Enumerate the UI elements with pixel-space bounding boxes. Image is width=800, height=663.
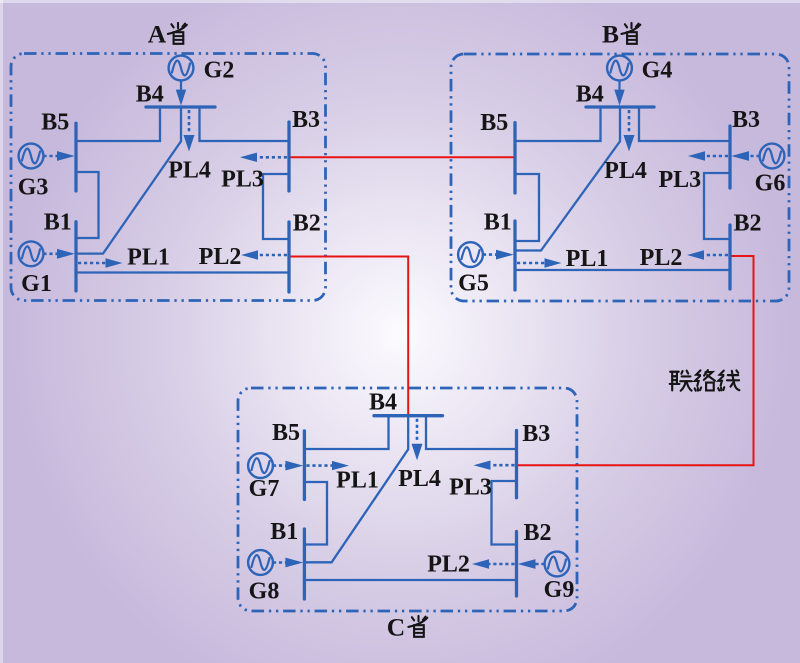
svg-text:B3: B3 [732, 107, 760, 133]
svg-text:G3: G3 [18, 175, 49, 201]
svg-text:B3: B3 [522, 421, 550, 447]
wire A.B1 to A.B2 [76, 271, 289, 273]
label C省 [387, 613, 428, 642]
svg-text:B5: B5 [480, 110, 508, 136]
load PL3 arrow (A.B3) [240, 153, 287, 162]
svg-text:B4: B4 [136, 82, 164, 108]
svg-text:PL4: PL4 [604, 158, 647, 184]
wire B.B4 to B.B3 [639, 107, 730, 141]
label B省 [602, 19, 640, 48]
svg-text:G5: G5 [458, 271, 489, 297]
svg-text:B5: B5 [272, 420, 300, 446]
svg-text:A: A [148, 19, 167, 48]
wire A.B5 to A.B1 [76, 172, 99, 238]
bus B.B3 [728, 126, 731, 188]
wire C.B5 to C.B1 [304, 482, 327, 545]
province C boundary box [238, 388, 577, 611]
bus A.B3 [287, 122, 290, 191]
wire C.B4 to C.B5 [304, 416, 388, 449]
svg-text:B1: B1 [44, 210, 72, 236]
load PL2 arrow (C.B2) [472, 559, 515, 568]
wire B.B1 to B.B2 [515, 269, 730, 271]
svg-text:PL4: PL4 [168, 158, 211, 184]
svg-text:B1: B1 [484, 210, 512, 236]
load PL3 arrow (B.B3) [688, 151, 728, 160]
svg-text:G2: G2 [204, 58, 235, 84]
svg-text:PL1: PL1 [336, 468, 379, 494]
svg-text:PL3: PL3 [449, 475, 492, 501]
svg-text:B4: B4 [576, 82, 604, 108]
generator G1 (A) [19, 241, 75, 266]
bus C.B3 [515, 431, 518, 498]
label 联络线 (tie line) [670, 370, 740, 390]
svg-text:PL3: PL3 [221, 167, 264, 193]
wire A.B4 to A.B3 [200, 107, 290, 141]
load PL1 arrow (B.B1) [517, 258, 562, 267]
svg-text:G4: G4 [642, 58, 673, 84]
tie line A.B2 to C.B4 [291, 257, 409, 415]
generator G9 (C) [518, 552, 570, 577]
svg-text:B5: B5 [41, 110, 69, 136]
svg-text:G6: G6 [755, 171, 786, 197]
load PL1 arrow (A.B1) [78, 258, 123, 267]
generator G5 (B) [458, 242, 514, 267]
svg-text:B2: B2 [523, 520, 551, 546]
wire B.B3 to B.B2 [704, 173, 730, 239]
label A省 [148, 19, 187, 48]
svg-text:G1: G1 [21, 271, 52, 297]
bus B.B1 [513, 221, 516, 290]
generator G3 (A) [19, 144, 75, 169]
svg-text:PL1: PL1 [127, 245, 170, 271]
wire A.B4 to A.B5 [76, 107, 160, 141]
tie line B.B2 to C.B3 [518, 256, 754, 465]
bus B.B4 [586, 105, 654, 108]
generator G6 (B) [731, 144, 784, 169]
bus C.B4 [374, 414, 443, 417]
svg-text:G9: G9 [544, 577, 575, 603]
wire B.B4 to B.B1 (diagonal) [515, 107, 620, 251]
tie line A.B3 to B.B5 [291, 156, 514, 158]
svg-text:G7: G7 [249, 476, 280, 502]
svg-text:PL3: PL3 [658, 167, 701, 193]
bus B.B5 [513, 123, 516, 193]
load PL3 arrow (C.B3) [474, 461, 515, 470]
left edge highlight [0, 0, 3, 663]
svg-text:PL2: PL2 [640, 245, 683, 271]
bus A.B1 [74, 222, 77, 291]
svg-text:PL2: PL2 [199, 244, 242, 270]
bus A.B4 [146, 105, 215, 108]
svg-text:PL4: PL4 [398, 466, 441, 492]
generator G7 (C) [248, 453, 303, 478]
generator G8 (C) [248, 550, 303, 575]
wire B.B5 to B.B1 [515, 174, 539, 241]
bus C.B1 [303, 529, 306, 599]
wire A.B4 to A.B1 (diagonal) [76, 107, 181, 254]
wire C.B4 to C.B1 (diagonal) [304, 416, 408, 563]
wire C.B1 to C.B2 [304, 579, 516, 581]
generator G2 (A.B4) [169, 56, 194, 106]
svg-text:B1: B1 [270, 519, 298, 545]
province A boundary box [11, 54, 326, 301]
wire C.B4 to C.B3 [426, 416, 517, 449]
bus A.B5 [74, 123, 77, 191]
svg-text:PL2: PL2 [427, 552, 470, 578]
province B boundary box [451, 54, 789, 301]
bus B.B2 [728, 225, 731, 289]
svg-text:B: B [602, 19, 619, 48]
load PL4 arrow (C.B4) [412, 419, 423, 461]
svg-text:B2: B2 [733, 210, 761, 236]
load PL2 arrow (B.B2) [687, 250, 728, 259]
load PL4 arrow (A.B4) [184, 110, 195, 152]
svg-text:B3: B3 [292, 107, 320, 133]
load PL4 arrow (B.B4) [624, 110, 635, 152]
svg-text:B4: B4 [369, 389, 397, 415]
load PL2 arrow (A.B2) [241, 250, 287, 259]
top edge highlight [0, 0, 800, 3]
wire A.B3 to A.B2 [263, 174, 289, 239]
bus C.B2 [515, 532, 518, 597]
bus A.B2 [287, 222, 290, 292]
bus C.B5 [303, 431, 306, 500]
wire C.B3 to C.B2 [492, 481, 517, 545]
svg-text:C: C [387, 613, 405, 642]
generator G4 (B.B4) [607, 56, 632, 106]
wire B.B4 to B.B5 [515, 107, 601, 141]
load PL1 arrow (C.B5) [306, 461, 349, 470]
svg-text:B2: B2 [293, 210, 321, 236]
svg-text:G8: G8 [249, 579, 280, 605]
svg-text:PL1: PL1 [566, 246, 609, 272]
